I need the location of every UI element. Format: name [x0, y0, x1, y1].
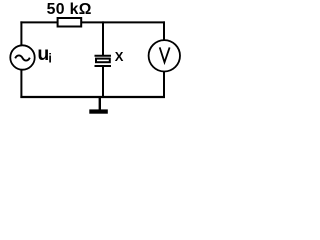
- voltmeter circle: [149, 40, 180, 71]
- wire crystal branch bottom: [102, 65, 104, 98]
- svg-text:X: X: [115, 49, 124, 64]
- wire bottom: [20, 96, 165, 98]
- svg-text:i: i: [48, 52, 51, 66]
- ac source circle: [10, 45, 34, 69]
- crystal X top plate: [95, 55, 112, 57]
- wire right: [163, 21, 165, 98]
- wire crystal branch top: [102, 21, 104, 56]
- ground stub: [99, 97, 101, 110]
- ac source sine: [15, 55, 30, 60]
- crystal X bottom plate: [95, 65, 112, 67]
- crystal X body box: [96, 59, 110, 63]
- wire top: [20, 21, 165, 23]
- ground bar: [89, 109, 108, 113]
- svg-text:50 kΩ: 50 kΩ: [47, 1, 92, 18]
- resistor R 50k box: [58, 18, 82, 27]
- voltmeter V glyph: [160, 47, 170, 62]
- wire left: [20, 21, 22, 98]
